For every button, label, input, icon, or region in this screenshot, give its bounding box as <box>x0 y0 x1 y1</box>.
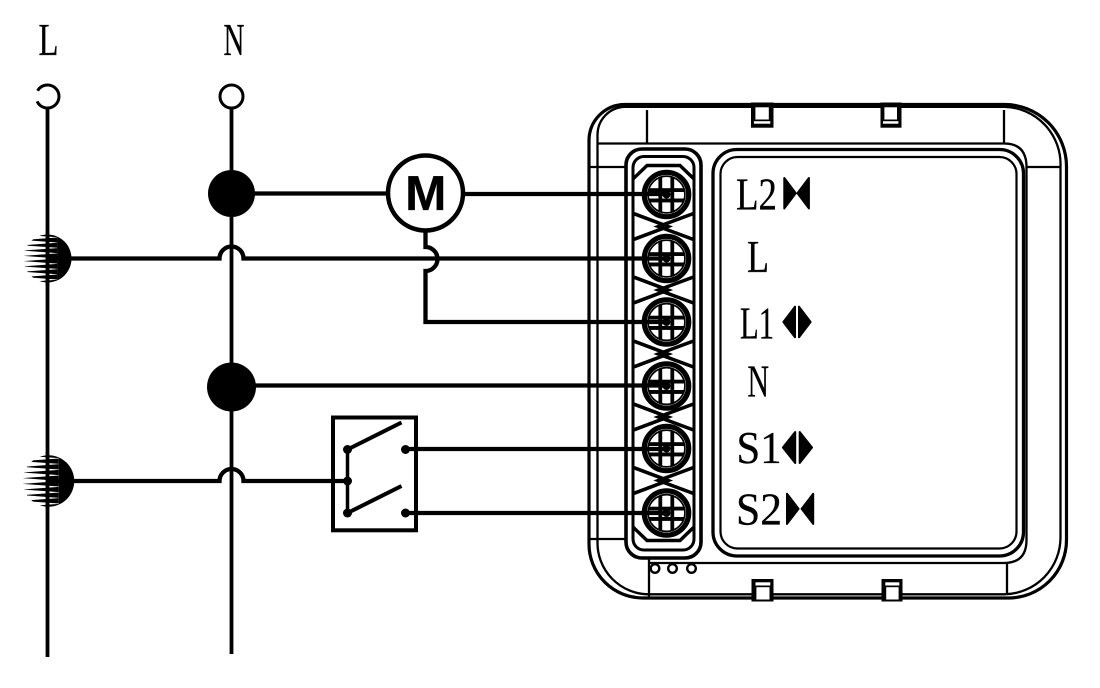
svg-text:M: M <box>405 166 446 221</box>
svg-text:L: L <box>39 14 59 65</box>
svg-text:L2: L2 <box>736 169 777 220</box>
svg-text:L: L <box>747 231 769 282</box>
svg-text:N: N <box>224 14 245 65</box>
svg-text:S2: S2 <box>736 484 782 535</box>
svg-text:L1: L1 <box>740 298 774 349</box>
svg-text:S1: S1 <box>737 422 782 473</box>
svg-text:N: N <box>748 356 770 407</box>
